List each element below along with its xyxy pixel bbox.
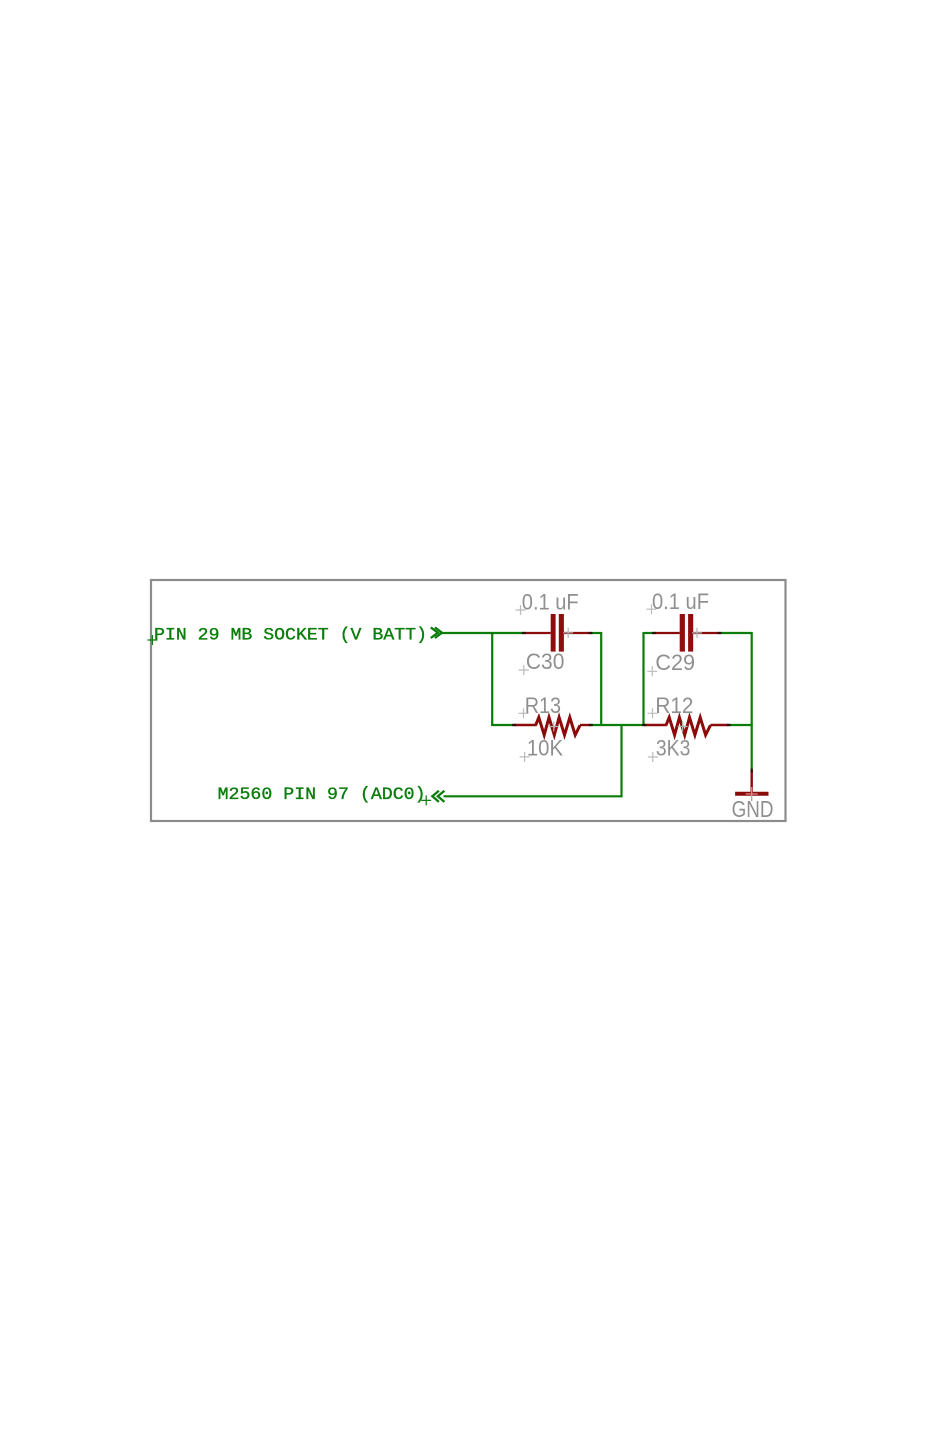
- svg-text:0.1 uF: 0.1 uF: [652, 589, 709, 614]
- svg-text:C29: C29: [655, 650, 695, 675]
- svg-text:C30: C30: [526, 649, 565, 674]
- svg-text:R12: R12: [655, 693, 693, 718]
- svg-text:3K3: 3K3: [656, 736, 691, 761]
- svg-text:PIN 29 MB SOCKET (V BATT): PIN 29 MB SOCKET (V BATT): [154, 626, 427, 646]
- svg-text:10K: 10K: [527, 736, 563, 761]
- svg-text:M2560 PIN 97 (ADC0): M2560 PIN 97 (ADC0): [218, 785, 426, 805]
- svg-text:0.1 uF: 0.1 uF: [522, 589, 579, 614]
- svg-text:R13: R13: [525, 693, 561, 718]
- svg-text:GND: GND: [732, 796, 774, 822]
